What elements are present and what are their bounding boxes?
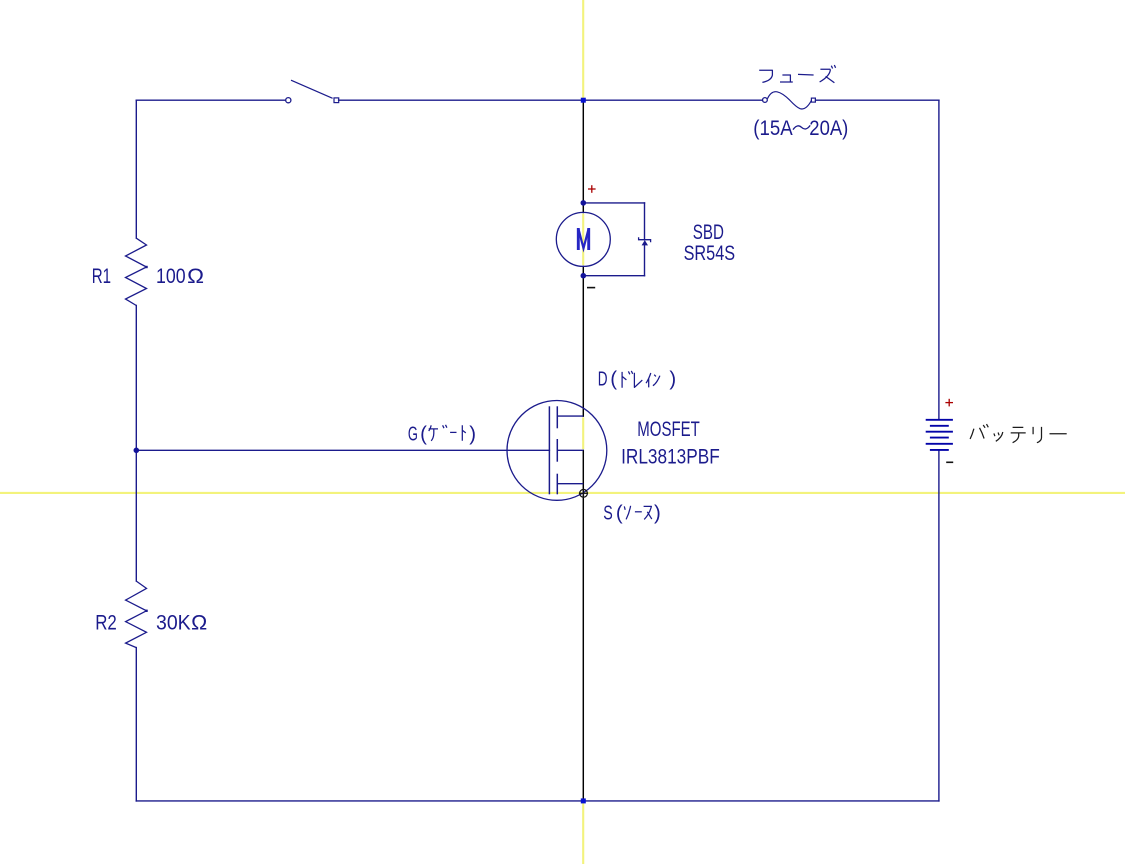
MOSFET source stub — [557, 483, 583, 485]
origin marker — [579, 489, 588, 498]
node dot motor minus — [581, 273, 587, 279]
svg-text:Ω: Ω — [187, 265, 204, 288]
motor M letter — [578, 228, 588, 250]
wire diode branch right lower — [644, 245, 646, 276]
wire diode branch top — [583, 202, 644, 204]
fuse F1 — [763, 92, 816, 109]
svg-text:(: ( — [420, 424, 427, 446]
wire top rail left segment — [136, 99, 285, 101]
grid axis vertical yellow line — [582, 0, 584, 864]
diode D1 SBD schottky — [639, 237, 651, 242]
MOSFET drain stub — [557, 415, 583, 417]
wire right rail lower — [938, 450, 940, 801]
wire bottom rail — [136, 800, 939, 802]
svg-text:): ) — [654, 502, 661, 524]
MOSFET gate bar — [548, 406, 550, 494]
wire top rail right segment — [816, 99, 939, 101]
svg-text:G: G — [408, 424, 418, 446]
minus mark battery — [946, 461, 953, 463]
svg-text:(15A: (15A — [753, 117, 792, 140]
battery BT1 plates — [926, 420, 953, 450]
resistor R2 — [126, 581, 147, 648]
grid axis horizontal yellow line — [0, 492, 1125, 494]
MOSFET Q1 circle — [507, 401, 607, 501]
wire left rail lower — [135, 648, 137, 801]
svg-text:30K: 30K — [156, 612, 191, 635]
wire center vertical upper (black net) — [582, 100, 584, 212]
svg-text:(: ( — [610, 369, 617, 391]
svg-text:R2: R2 — [95, 612, 117, 635]
wire top rail middle segment — [339, 99, 763, 101]
wire left rail middle — [135, 306, 137, 582]
plus mark battery — [945, 399, 953, 407]
node dot gate left rail — [134, 448, 140, 454]
motor M circle — [556, 212, 610, 266]
node dot motor plus — [581, 200, 587, 206]
wire right rail upper — [938, 100, 940, 420]
svg-text:100: 100 — [156, 265, 186, 288]
svg-text:MOSFET: MOSFET — [637, 418, 700, 441]
svg-text:): ) — [469, 424, 476, 446]
plus mark motor — [588, 185, 596, 193]
junction square top — [581, 98, 586, 103]
svg-text:D: D — [598, 369, 608, 391]
wire gate horizontal — [136, 449, 549, 451]
wire diode branch right upper — [644, 203, 646, 240]
wire center vertical middle (black net) — [582, 266, 584, 416]
svg-text:Ω: Ω — [191, 612, 207, 635]
svg-text:SR54S: SR54S — [684, 242, 736, 265]
MOSFET channel dashes — [556, 406, 558, 494]
wire left rail upper — [135, 100, 137, 238]
switch SW1 — [286, 80, 339, 103]
svg-text:SBD: SBD — [693, 221, 724, 244]
white underlay center vertical — [582, 100, 585, 212]
wire center vertical lower (black net) — [582, 450, 584, 801]
svg-text:): ) — [669, 369, 676, 391]
label fuse katakana fu-yu-zu — [759, 65, 835, 83]
svg-text:(: ( — [616, 502, 623, 524]
junction square bottom — [581, 798, 586, 803]
svg-text:20A): 20A) — [809, 117, 848, 140]
MOSFET body stub — [557, 449, 583, 451]
minus mark motor — [587, 287, 595, 289]
resistor R1 — [126, 238, 147, 305]
svg-text:S: S — [603, 502, 613, 524]
wire diode branch bottom — [583, 275, 644, 277]
svg-text:IRL3813PBF: IRL3813PBF — [621, 446, 720, 469]
label battery katakana ba-tsu-te-ri- — [970, 424, 1067, 443]
svg-text:R1: R1 — [92, 265, 111, 288]
